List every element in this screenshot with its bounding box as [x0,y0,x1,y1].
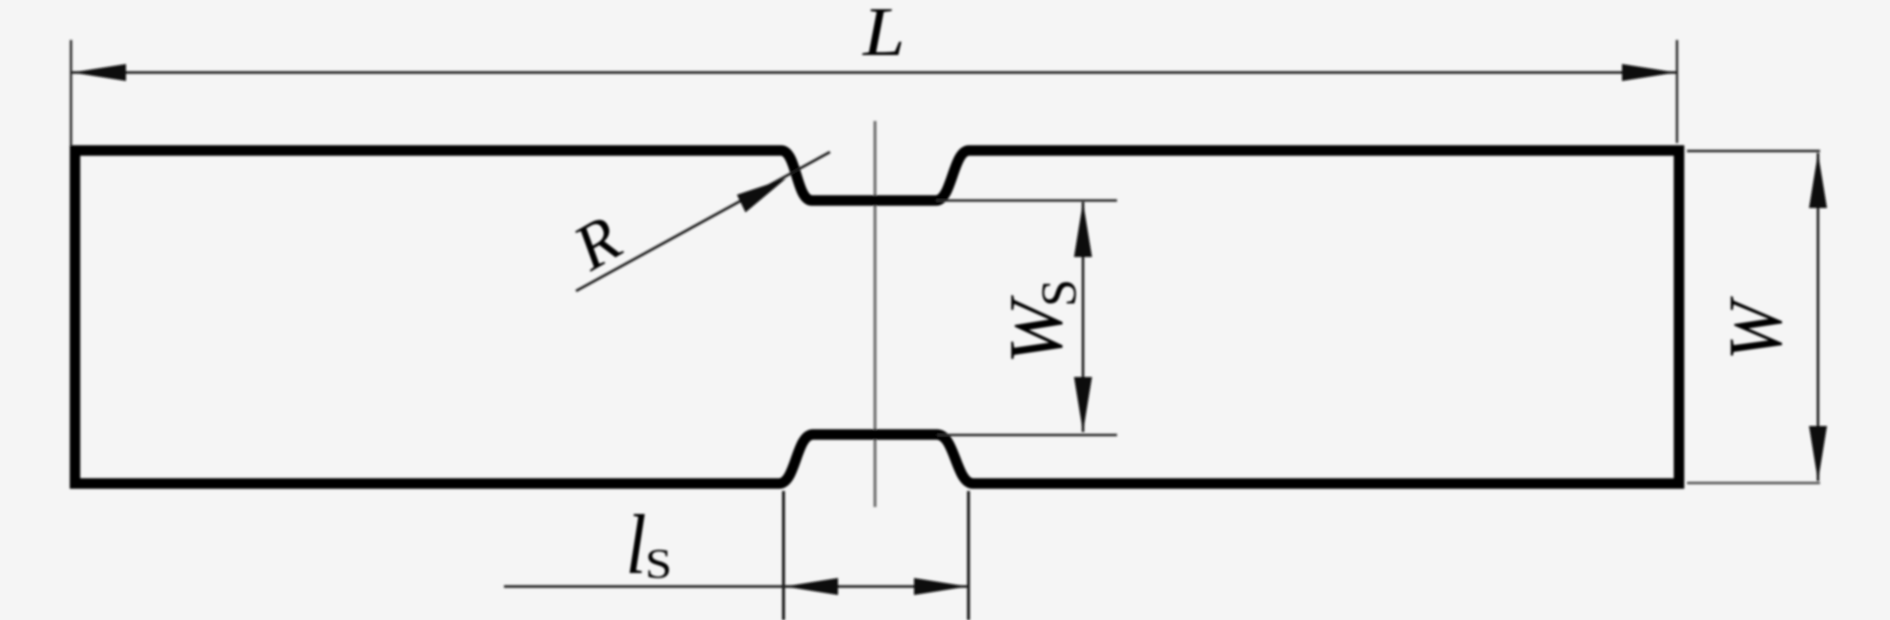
arrowhead L right [1622,64,1676,81]
specimen outline [75,151,1679,484]
extension line W top [1687,150,1820,152]
svg-text:l: l [626,499,647,592]
dimension line Ws [1082,202,1085,432]
dimension line L [71,71,1677,74]
svg-text:W: W [1713,296,1797,361]
leader line R [576,152,830,291]
dimension line W [1817,153,1820,481]
svg-text:L: L [862,0,905,70]
extension line ls right [967,491,970,620]
arrowhead W bottom [1809,426,1827,481]
extension line Ws bottom [937,434,1117,436]
arrowhead R leader [737,179,786,213]
extension line Ws top [936,199,1117,201]
svg-text:S: S [645,541,672,587]
arrowhead ls right [914,578,968,595]
arrowhead W top [1809,153,1827,208]
arrowhead L left [72,64,126,81]
extension line ls left [782,491,785,620]
arrowhead ls left [785,578,839,595]
svg-text:S: S [1030,279,1086,307]
arrowhead Ws top [1074,202,1092,257]
extension line W bottom [1687,482,1820,484]
dimension line ls [504,585,969,588]
centerline [874,121,877,507]
extension line L left [70,40,72,146]
extension line L right [1676,40,1678,143]
arrowhead Ws bottom [1074,377,1092,432]
